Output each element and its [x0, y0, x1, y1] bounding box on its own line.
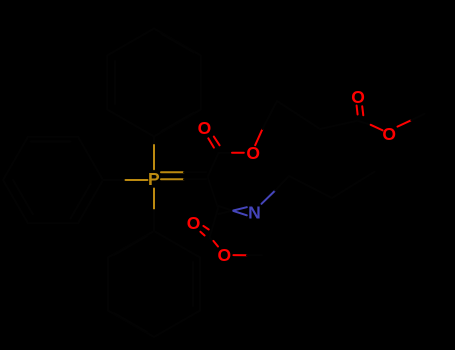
bond imine C - bottom ester C	[210, 208, 219, 238]
top ester: bond O-CH2 (black half)	[263, 101, 278, 129]
bond P-phenyl left (olive half)	[126, 179, 148, 181]
svg-text:O: O	[382, 124, 396, 144]
right ester: bond O-CH3 (black half)	[411, 114, 424, 120]
top ester: bond C-O (red half)	[232, 152, 244, 154]
right ester: bond O-CH3 (red half)	[398, 120, 412, 126]
crossed double bond C=N (blue halves near N)	[233, 207, 247, 215]
right ester: bond C-O (red half)	[371, 125, 383, 131]
top ester: bond C-O (black half)	[219, 152, 233, 154]
phenyl ring left (on P)	[3, 137, 103, 224]
bond P-phenyl top (black half)	[153, 137, 155, 146]
svg-text:O: O	[198, 118, 212, 138]
bond ylide C - top ester C	[208, 153, 219, 176]
right ester: double bond C=O (red halves near O)	[357, 106, 364, 116]
chain bond CH2-ester C	[320, 121, 358, 130]
bond P-phenyl top (olive half)	[153, 145, 155, 169]
bond P-phenyl bottom (olive half)	[153, 189, 155, 211]
chain bond CH2-CH2 (N side)	[289, 176, 332, 198]
svg-text:N: N	[248, 203, 261, 223]
crossed double bond C=N (black halves near C)	[219, 206, 234, 214]
bond N-CH2 (blue half)	[262, 191, 276, 204]
right ester: bond C-O (black half)	[358, 121, 370, 125]
bond N-CH2 (black half)	[275, 176, 289, 191]
chain bond CH2-CH2 (ester O side)	[277, 101, 320, 129]
bottom ester: bond O-CH3 (red half)	[233, 254, 247, 256]
svg-text:O: O	[351, 87, 365, 107]
double bond P=C ylide (olive halves)	[161, 172, 184, 179]
bond P-phenyl bottom (black half)	[153, 210, 155, 231]
bottom ester: bond C-O (black half)	[210, 238, 214, 241]
phenyl ring top (on P)	[107, 29, 201, 137]
phenyl ring bottom (on P)	[108, 231, 200, 337]
bond P-phenyl left (black half)	[103, 179, 126, 181]
svg-text:O: O	[246, 143, 260, 163]
svg-text:P: P	[148, 169, 160, 189]
bottom ester: double bond C=O (red halves near O)	[200, 226, 208, 236]
top ester: bond O-CH2 (red half)	[255, 129, 262, 145]
top ester: double bond C=O (red halves near O)	[208, 137, 219, 148]
bottom ester: bond C-O (red half)	[213, 241, 218, 247]
svg-text:O: O	[217, 245, 231, 265]
bond ylide C - imine C	[208, 178, 218, 208]
double bond P=C ylide (black halves)	[184, 172, 206, 179]
svg-text:O: O	[187, 213, 201, 233]
chain bond CH2-CH3 (N side)	[332, 172, 375, 198]
bottom ester: bond O-CH3 (black half)	[247, 254, 262, 256]
